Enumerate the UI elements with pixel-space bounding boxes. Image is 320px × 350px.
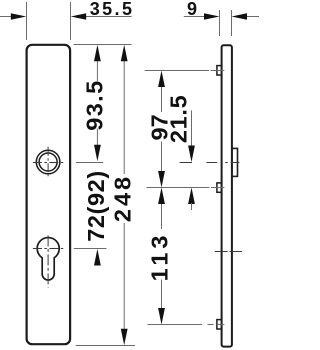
svg-text:72(92): 72(92) — [83, 170, 109, 242]
svg-text:35.5: 35.5 — [90, 0, 135, 19]
svg-text:248: 248 — [110, 174, 136, 222]
svg-text:113: 113 — [147, 232, 173, 282]
svg-text:9: 9 — [187, 0, 197, 19]
svg-text:21.5: 21.5 — [166, 95, 192, 144]
svg-text:93.5: 93.5 — [82, 79, 108, 130]
